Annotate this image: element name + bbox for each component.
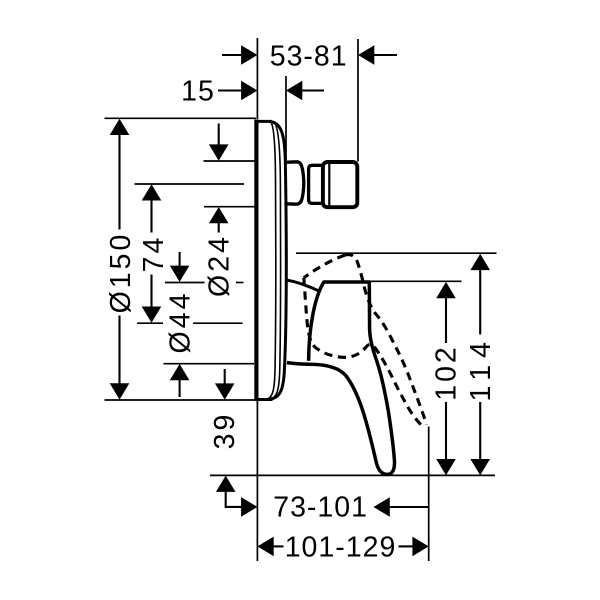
dimension 53-81 right arrow: [374, 54, 398, 56]
svg-text:102: 102: [431, 344, 463, 401]
escutcheon plate front face: [254, 120, 258, 401]
escutcheon plate bottom edge: [255, 398, 273, 401]
dimension 15 left arrow: [218, 89, 242, 91]
svg-text:101-129: 101-129: [285, 531, 397, 563]
extension line nut face x358: [357, 39, 359, 162]
union nut body: [323, 162, 357, 207]
extension line sleeve axis y323.2 right segment: [193, 322, 243, 324]
dimension 15 right arrow: [302, 89, 325, 91]
svg-text:39: 39: [209, 412, 241, 450]
dashed lever raised position: lower scoop edge: [313, 344, 425, 427]
extension line dashed lever top y253.2: [296, 252, 497, 254]
dimension D150 line and arrows: [118, 134, 120, 385]
extension line sleeve axis y323.2 left segment: [137, 322, 163, 324]
dimension 74 line and arrows: [150, 200, 152, 308]
extension line cone top y161: [204, 160, 256, 162]
dashed lever raised position: top edge: [304, 255, 345, 278]
dimension 102 line and arrows: [445, 297, 447, 461]
dimension 101-129 right arrow: [399, 545, 414, 547]
extension line cone axis y184: [135, 183, 245, 185]
handle sleeve top contour: [287, 280, 319, 291]
dashed lever raised position: right edge and grip outer curve: [345, 255, 426, 425]
svg-text:Ø150: Ø150: [105, 232, 137, 314]
spout connector mid piece: [309, 165, 323, 203]
svg-text:Ø24: Ø24: [203, 234, 235, 297]
dimension 39 top arrow: [224, 369, 226, 385]
escutcheon plate inner contour line 1: [269, 123, 276, 399]
extension line cone face x286: [285, 76, 287, 160]
union nut chamfer line: [328, 163, 330, 207]
escutcheon plate outer contour: [269, 122, 286, 400]
extension line sleeve top y282.5 right segment: [236, 282, 244, 284]
dimension D44 bottom arrow: [179, 380, 181, 398]
lever handle solid outline: [287, 282, 395, 474]
dimension 39 bottom arrow with leader to 73-101: [226, 491, 242, 507]
extension line lever tip x428.7: [428, 427, 430, 562]
escutcheon plate inner contour line 2: [273, 123, 281, 399]
dashed lever raised position: left edge: [304, 278, 313, 346]
svg-text:74: 74: [138, 235, 170, 273]
extension line top of plate y118.3: [105, 117, 257, 119]
extension line lever tip level y475.4: [210, 474, 495, 476]
extension line above plate face x257: [256, 38, 258, 119]
dimension 73-101 right arrow: [389, 506, 429, 508]
extension line plate face below x257: [256, 401, 258, 561]
svg-text:73-101: 73-101: [273, 492, 368, 524]
dimension D24 top arrow: [218, 124, 220, 146]
svg-text:Ø44: Ø44: [164, 291, 196, 354]
extension line cone bottom y206.7: [204, 206, 256, 208]
extension line plate bottom y400: [105, 399, 257, 401]
extension line sleeve top y282.5 left segment: [165, 282, 205, 284]
svg-text:53-81: 53-81: [270, 40, 348, 72]
svg-text:15: 15: [181, 75, 215, 107]
dimension 73-101 left arrow: [241, 497, 257, 517]
supply elbow cone on plate: [286, 162, 304, 204]
svg-text:114: 114: [465, 335, 497, 401]
dimension 114 line and arrows: [479, 269, 481, 461]
dimension 53-81 left arrow: [222, 54, 242, 56]
dimension D24 bottom arrow: [218, 223, 220, 233]
escutcheon plate top edge: [255, 120, 272, 123]
dimension 101-129 left arrow: [273, 545, 284, 547]
extension line sleeve bottom y363.7: [164, 363, 255, 365]
extension line handle top y281.3: [370, 280, 462, 282]
dimension D44 top arrow: [179, 252, 181, 267]
